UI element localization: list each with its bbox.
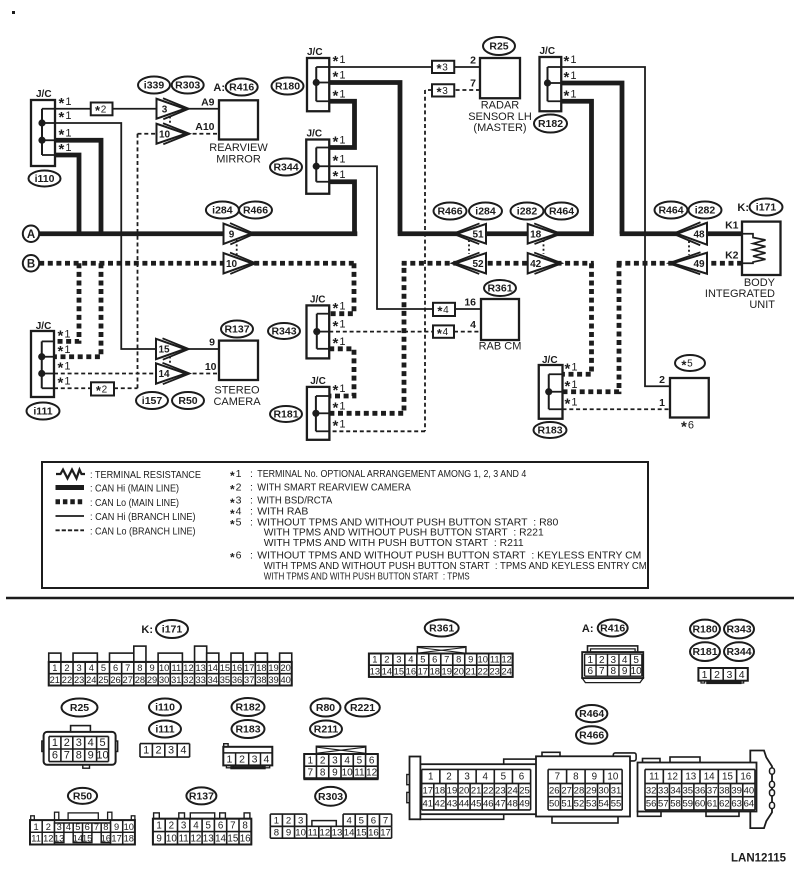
svg-text:3: 3 <box>76 737 82 749</box>
svg-text:17: 17 <box>418 665 428 676</box>
svg-text:4: 4 <box>88 737 94 749</box>
svg-text:6: 6 <box>432 654 437 665</box>
svg-text:19: 19 <box>447 785 458 796</box>
svg-text:49: 49 <box>519 799 530 810</box>
svg-text:16: 16 <box>232 663 242 673</box>
connector oval R80 (pinout) <box>311 699 341 717</box>
wire CAN Lo branch vertical from triangle10 down to stereo junction <box>137 134 139 374</box>
svg-text:39: 39 <box>731 785 742 796</box>
svg-text:35: 35 <box>220 675 230 685</box>
svg-text:4: 4 <box>408 654 413 665</box>
svg-text:6: 6 <box>369 755 375 766</box>
svg-text:31: 31 <box>171 675 181 685</box>
wire bus B segment 2 (CAN Lo main) <box>402 261 594 266</box>
legend CAN Lo main sample <box>56 497 180 509</box>
svg-text:15: 15 <box>227 833 238 844</box>
svg-text:REARVIEW: REARVIEW <box>209 142 268 154</box>
junction connector R182 <box>540 46 562 111</box>
wire R182 row2 down to bus A right segment (CAN Hi main) <box>561 83 622 234</box>
option box *3 (pin2) <box>432 61 454 76</box>
junction connector R181 <box>307 376 330 440</box>
svg-text:A10: A10 <box>195 121 214 133</box>
svg-text:: CAN Lo (BRANCH LINE): : CAN Lo (BRANCH LINE) <box>90 525 196 537</box>
gateway triangle 49 <box>669 252 707 274</box>
svg-text:22: 22 <box>483 785 494 796</box>
wire R344 row3 down to bus A (CAN Hi main) <box>329 182 354 236</box>
connector oval R466 (left) <box>239 202 272 219</box>
svg-text:MIRROR: MIRROR <box>216 154 261 166</box>
svg-text:8: 8 <box>137 663 142 673</box>
svg-text:50: 50 <box>549 799 560 810</box>
svg-text:UNIT: UNIT <box>749 299 775 311</box>
svg-text:9: 9 <box>592 772 597 783</box>
svg-text:: CAN Hi (MAIN LINE): : CAN Hi (MAIN LINE) <box>90 483 179 495</box>
*1 terminal labels <box>333 382 346 434</box>
connector oval R182 (pinout) <box>232 698 265 716</box>
svg-text:5: 5 <box>75 822 80 832</box>
svg-text:5: 5 <box>101 663 106 673</box>
wire R344 row2 down to RAB CM pin16 (CAN Hi branch) <box>329 166 433 309</box>
svg-text:1: 1 <box>372 654 377 665</box>
connector oval R221 (pinout) <box>345 699 380 717</box>
svg-text:3: 3 <box>726 669 732 681</box>
svg-text:12: 12 <box>366 768 378 779</box>
svg-text:13: 13 <box>332 827 343 838</box>
svg-text:53: 53 <box>586 799 597 810</box>
svg-text:5: 5 <box>99 737 105 749</box>
svg-text:3: 3 <box>181 820 187 831</box>
svg-text:3: 3 <box>332 755 338 766</box>
svg-text:R221: R221 <box>350 702 375 714</box>
stray dot <box>12 11 15 14</box>
svg-text:52: 52 <box>472 259 484 270</box>
wire triangle10 to rearview mirror pin A10 (CAN Lo branch) <box>186 133 219 135</box>
svg-text:: TERMINAL RESISTANCE: : TERMINAL RESISTANCE <box>90 469 201 481</box>
svg-text:R416: R416 <box>600 623 625 635</box>
svg-text:11: 11 <box>171 663 181 673</box>
svg-text:2: 2 <box>156 745 162 757</box>
connector oval i284 (mid) <box>469 203 502 220</box>
svg-text:14: 14 <box>158 369 170 380</box>
svg-text:8: 8 <box>456 654 461 665</box>
svg-text:R344: R344 <box>273 162 298 174</box>
legend terminal resistance symbol <box>56 469 201 481</box>
svg-text:R183: R183 <box>235 724 260 736</box>
svg-text:8: 8 <box>573 772 579 783</box>
connector oval R182 <box>534 115 567 133</box>
option box *4 (pin16) <box>433 303 455 319</box>
label K: + oval i171 (pinout) <box>141 620 188 638</box>
svg-text:10: 10 <box>631 666 643 677</box>
component BODY INTEGRATED UNIT with terminal resistor <box>705 220 781 312</box>
svg-text:i111: i111 <box>155 724 174 736</box>
svg-text:12: 12 <box>501 654 511 665</box>
svg-text:9: 9 <box>149 663 154 673</box>
svg-text:2: 2 <box>599 655 605 666</box>
svg-text:18: 18 <box>430 665 440 676</box>
svg-text:7: 7 <box>308 768 314 779</box>
svg-text:4: 4 <box>180 745 186 757</box>
svg-text:37: 37 <box>244 675 254 685</box>
svg-text:4: 4 <box>66 822 71 832</box>
svg-text:18: 18 <box>435 785 446 796</box>
svg-text:15: 15 <box>158 345 170 356</box>
svg-text:R361: R361 <box>487 283 512 295</box>
svg-text:(MASTER): (MASTER) <box>473 122 526 134</box>
svg-text:A:: A: <box>213 82 225 94</box>
svg-text:WITH TPMS AND WITH PUSH BUTTON: WITH TPMS AND WITH PUSH BUTTON START : T… <box>264 570 470 582</box>
wire bus B down to R183 row1 (CAN Lo main) <box>563 263 592 374</box>
svg-text:J/C: J/C <box>36 321 52 332</box>
svg-text:43: 43 <box>447 799 458 810</box>
svg-text:8: 8 <box>76 750 82 762</box>
connector pinout R80/R221/R211 (12pin) <box>304 746 379 780</box>
junction connector R343 <box>307 295 330 359</box>
svg-text:21: 21 <box>466 665 476 676</box>
wire bus B down to R343 row1 (CAN Lo main) <box>329 263 354 313</box>
wire R183 row2 up to bus B (CAN Lo main) <box>563 263 620 392</box>
svg-text:i284: i284 <box>475 206 496 218</box>
gateway triangle 15 <box>156 338 189 359</box>
wire i110 row1 to *2 box and triangle 3 (CAN Hi branch) <box>55 108 91 110</box>
svg-text:42: 42 <box>530 259 542 270</box>
svg-text:LAN12115: LAN12115 <box>731 853 787 865</box>
legend CAN Hi main sample <box>56 483 180 495</box>
*1 terminal labels <box>333 300 346 352</box>
svg-text:14: 14 <box>704 772 715 783</box>
svg-text:12: 12 <box>667 772 678 783</box>
connector oval R181 (pinout) <box>690 642 720 661</box>
connector oval R211 (pinout) <box>310 721 342 738</box>
svg-text:14: 14 <box>382 665 392 676</box>
svg-text:R303: R303 <box>318 791 343 803</box>
connector pinout 64pin cells group1 <box>422 769 531 810</box>
svg-text:3: 3 <box>77 663 82 673</box>
connector pinout R303 (17pin) <box>270 814 391 838</box>
svg-text:J/C: J/C <box>542 355 558 366</box>
svg-text:11: 11 <box>649 772 659 783</box>
svg-text:2: 2 <box>470 55 476 67</box>
wire dotted link triangles 15-14 <box>169 352 171 365</box>
svg-text:K:: K: <box>737 202 749 214</box>
svg-text:58: 58 <box>670 799 681 810</box>
connector oval R343 (pinout) <box>724 620 754 639</box>
svg-text:18: 18 <box>256 663 266 673</box>
svg-text:26: 26 <box>110 675 120 685</box>
section separator line <box>6 597 794 600</box>
svg-text:9: 9 <box>468 654 473 665</box>
svg-text:62: 62 <box>719 799 730 810</box>
svg-text:: CAN Lo (MAIN LINE): : CAN Lo (MAIN LINE) <box>90 497 179 509</box>
svg-text:BODY: BODY <box>744 277 776 289</box>
svg-text:40: 40 <box>281 675 291 685</box>
wire i110 row3 to bus A (CAN Hi main) <box>55 140 101 234</box>
svg-text:15: 15 <box>722 772 733 783</box>
svg-text:4: 4 <box>89 663 94 673</box>
legend *4 note <box>230 506 308 521</box>
svg-text:10: 10 <box>342 768 354 779</box>
svg-text:STEREO: STEREO <box>214 385 260 397</box>
svg-text:36: 36 <box>695 785 706 796</box>
svg-text:A9: A9 <box>201 96 215 108</box>
connector oval R464 (mid) <box>545 203 578 220</box>
svg-text:28: 28 <box>574 785 585 796</box>
svg-text:13: 13 <box>195 663 205 673</box>
connector oval R181 <box>270 406 302 422</box>
svg-text:R80: R80 <box>316 702 335 714</box>
svg-text:2: 2 <box>320 755 326 766</box>
svg-text:61: 61 <box>707 799 718 810</box>
svg-text:33: 33 <box>195 675 205 685</box>
svg-text:R181: R181 <box>273 409 298 421</box>
svg-text:9: 9 <box>88 750 94 762</box>
connector oval R180 (pinout) <box>690 620 720 639</box>
svg-text:J/C: J/C <box>307 129 323 140</box>
wire R180 row1 to *3 and radar sensor pin 2 (CAN Hi branch) <box>329 66 432 68</box>
connector oval R50 <box>172 392 204 409</box>
svg-text:21: 21 <box>471 785 482 796</box>
svg-text:17: 17 <box>111 833 121 843</box>
svg-text:54: 54 <box>598 799 609 810</box>
legend *3 note <box>230 495 332 510</box>
svg-text:1: 1 <box>143 745 149 757</box>
svg-text:29: 29 <box>586 785 597 796</box>
*1 terminal labels <box>58 328 71 392</box>
svg-text:R137: R137 <box>189 790 214 802</box>
connector pinout R416 (10pin) <box>582 646 643 683</box>
svg-text:1: 1 <box>156 820 161 831</box>
svg-text:i282: i282 <box>695 205 716 217</box>
svg-text:6: 6 <box>113 663 118 673</box>
svg-text:49: 49 <box>693 259 705 270</box>
svg-text:5: 5 <box>359 815 364 826</box>
svg-text:i111: i111 <box>33 406 52 418</box>
svg-text:19: 19 <box>268 663 278 673</box>
connector oval R361 <box>484 280 516 296</box>
svg-text:4: 4 <box>346 815 352 826</box>
svg-text:15: 15 <box>82 833 92 843</box>
svg-text:31: 31 <box>611 785 622 796</box>
wire bus B segment 1 (CAN Lo main) <box>39 261 356 266</box>
svg-text:10: 10 <box>159 663 169 673</box>
label A: + connector oval R416 <box>213 79 257 96</box>
wire R182 row1 right and down to *5 box pin 2 (CAN Hi branch) <box>561 67 670 386</box>
svg-text:23: 23 <box>74 675 84 685</box>
svg-text:WITH TPMS AND WITH PUSH BUTTON: WITH TPMS AND WITH PUSH BUTTON START : R… <box>264 537 524 549</box>
svg-text:5: 5 <box>420 654 425 665</box>
svg-text:4: 4 <box>344 755 350 766</box>
svg-text:15: 15 <box>356 827 367 838</box>
svg-text:RADAR: RADAR <box>481 100 520 112</box>
svg-text:1: 1 <box>308 755 314 766</box>
gateway triangle 3 <box>157 98 189 119</box>
wire R183 row3 to *5 box pin 1 (CAN Lo branch) <box>563 408 671 410</box>
svg-text:10: 10 <box>159 129 171 140</box>
svg-text:16: 16 <box>406 665 416 676</box>
svg-text:52: 52 <box>574 799 585 810</box>
svg-text:10: 10 <box>477 654 487 665</box>
node B <box>23 255 39 271</box>
svg-text:2: 2 <box>46 822 51 832</box>
wire dotted link triangles 51-52 <box>468 240 470 254</box>
wire triangle10 input branch from junction (CAN Lo branch) <box>138 133 157 135</box>
svg-text:2: 2 <box>239 753 245 765</box>
svg-text:2: 2 <box>286 815 291 826</box>
junction connector R344 <box>306 129 329 194</box>
svg-text:TERMINAL No. OPTIONAL ARRANGEM: TERMINAL No. OPTIONAL ARRANGEMENT AMONG … <box>257 468 526 480</box>
svg-text:37: 37 <box>707 785 718 796</box>
svg-text:17: 17 <box>422 785 433 796</box>
svg-text:3: 3 <box>57 822 62 832</box>
svg-text:19: 19 <box>442 665 452 676</box>
svg-text:26: 26 <box>549 785 560 796</box>
svg-text:R416: R416 <box>229 82 254 94</box>
svg-text:R50: R50 <box>73 790 92 802</box>
svg-text:R50: R50 <box>178 395 197 407</box>
wire R182 row3 down to bus A (CAN Hi main) <box>561 101 591 234</box>
svg-text:64: 64 <box>744 799 755 810</box>
wire bus A segment 2 (CAN Hi main) <box>398 231 594 236</box>
*1 terminal labels <box>333 53 346 104</box>
svg-text:20: 20 <box>454 665 464 676</box>
svg-text:3: 3 <box>168 745 174 757</box>
svg-text:13: 13 <box>370 665 380 676</box>
option oval *5 <box>675 355 705 372</box>
wire bus A segment 1 (CAN Hi main) <box>39 231 357 236</box>
svg-text:38: 38 <box>719 785 730 796</box>
connector oval R137 (pinout) <box>186 787 216 804</box>
svg-text:11: 11 <box>31 833 41 843</box>
svg-text:56: 56 <box>646 799 657 810</box>
svg-text:A: A <box>27 229 35 241</box>
svg-text:13: 13 <box>685 772 696 783</box>
connector oval R180 <box>272 78 304 95</box>
connector pinout i110/i111 (4pin) <box>140 744 190 758</box>
svg-text:14: 14 <box>344 827 355 838</box>
svg-text:i110: i110 <box>155 702 175 714</box>
svg-text:30: 30 <box>159 675 169 685</box>
svg-text:9: 9 <box>114 822 119 832</box>
svg-text:11: 11 <box>179 833 189 844</box>
svg-text:7: 7 <box>125 663 130 673</box>
svg-text:R343: R343 <box>271 326 296 338</box>
junction connector R180 <box>307 47 329 111</box>
svg-text:8: 8 <box>610 666 616 677</box>
svg-text:24: 24 <box>501 665 511 676</box>
svg-text:59: 59 <box>682 799 693 810</box>
svg-text:9: 9 <box>622 666 628 677</box>
svg-text:40: 40 <box>744 785 755 796</box>
svg-text:10: 10 <box>607 772 618 783</box>
svg-text:7: 7 <box>383 815 388 826</box>
svg-text:46: 46 <box>483 799 494 810</box>
svg-text:27: 27 <box>123 675 133 685</box>
wire bus B segment 3 (CAN Lo main) <box>617 261 742 266</box>
svg-text:i171: i171 <box>756 202 777 214</box>
component RADAR SENSOR LH (MASTER) R25 <box>468 55 532 135</box>
svg-text:2: 2 <box>659 374 665 386</box>
svg-text:18: 18 <box>530 229 542 240</box>
svg-text:7: 7 <box>599 666 605 677</box>
svg-text::: : <box>250 468 253 480</box>
svg-text:J/C: J/C <box>310 376 326 387</box>
svg-text:16: 16 <box>368 827 379 838</box>
svg-text:25: 25 <box>519 785 530 796</box>
wire triangle3 to rearview mirror pin A9 (CAN Hi branch) <box>185 108 219 110</box>
svg-text:10: 10 <box>205 361 217 373</box>
wire i111 row3 to triangle 14 junction (CAN Lo branch) <box>54 373 156 375</box>
svg-text:16: 16 <box>101 833 111 843</box>
wire triangle14 to stereo camera pin 10 (CAN Lo branch) <box>186 373 219 375</box>
svg-text:20: 20 <box>459 785 470 796</box>
wire dotted link triangles 48-49 <box>688 241 690 255</box>
component REARVIEW MIRROR (A: R416) <box>195 96 268 165</box>
svg-text:R137: R137 <box>224 324 249 336</box>
gateway triangle 18 <box>528 223 561 244</box>
svg-text:63: 63 <box>731 799 742 810</box>
svg-text:CAMERA: CAMERA <box>213 396 261 408</box>
svg-text:33: 33 <box>658 785 669 796</box>
svg-text:K1: K1 <box>725 220 739 232</box>
connector oval R466 (pinout) <box>576 726 607 744</box>
label K: + connector oval i171 <box>737 199 782 216</box>
svg-text:6: 6 <box>85 822 90 832</box>
svg-text:10: 10 <box>295 827 306 838</box>
svg-text:R464: R464 <box>658 205 683 217</box>
junction connector i111 <box>31 321 54 397</box>
connector oval R343 <box>268 323 300 339</box>
*1 terminal labels <box>564 53 577 104</box>
svg-text:18: 18 <box>124 833 134 843</box>
connector oval R25 <box>483 37 515 55</box>
connector pinout R182/R183 (4pin) <box>223 744 272 770</box>
wire triangle15 to stereo camera pin 9 (CAN Hi branch) <box>185 348 219 350</box>
connector oval R361 (pinout) <box>425 620 459 637</box>
svg-text:8: 8 <box>242 820 248 831</box>
svg-text:24: 24 <box>507 785 518 796</box>
svg-text:7: 7 <box>64 750 70 762</box>
svg-text:6: 6 <box>588 666 594 677</box>
svg-text:3: 3 <box>464 772 470 783</box>
svg-text:R25: R25 <box>70 702 89 714</box>
svg-text:41: 41 <box>422 799 433 810</box>
svg-text:i284: i284 <box>212 205 233 217</box>
wire dotted link triangles 9-10 <box>236 240 238 255</box>
connector oval i110 <box>29 171 61 187</box>
connector oval R466 (mid) <box>434 203 467 220</box>
svg-text:i339: i339 <box>144 80 165 92</box>
svg-text:11: 11 <box>490 654 500 665</box>
connector oval R183 (pinout) <box>232 720 265 738</box>
svg-text:5: 5 <box>633 655 639 666</box>
svg-text:2: 2 <box>384 654 389 665</box>
svg-text:48: 48 <box>507 799 518 810</box>
svg-text:9: 9 <box>209 337 215 349</box>
svg-text:4: 4 <box>739 669 745 681</box>
svg-text:R464: R464 <box>549 206 574 218</box>
gateway triangle 51 <box>453 223 486 244</box>
option box *3 (pin7) <box>432 84 454 99</box>
svg-text:R211: R211 <box>314 724 339 736</box>
svg-text:9: 9 <box>156 833 161 844</box>
wire i110 row4 to bus A (CAN Hi main) <box>55 155 79 234</box>
connector oval R25 (pinout) <box>62 699 98 717</box>
svg-text:34: 34 <box>208 675 218 685</box>
legend *5 note <box>230 516 558 531</box>
svg-text:5: 5 <box>501 772 507 783</box>
svg-text:R343: R343 <box>726 624 751 636</box>
svg-text:R464: R464 <box>579 708 604 720</box>
